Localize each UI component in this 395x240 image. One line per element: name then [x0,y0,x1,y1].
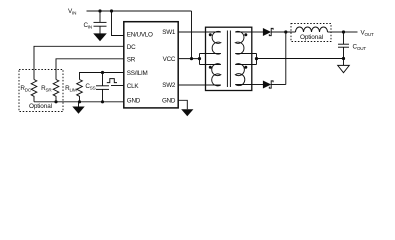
junction dot EN tap [110,9,113,12]
inductor L1 [291,27,344,32]
IC U1 box [124,22,178,108]
junction dot COUT bottom [342,57,345,60]
svg-text:RSR: RSR [41,85,52,93]
svg-text:CLK: CLK [127,83,140,90]
secondary winding bottom [235,64,256,86]
svg-text:SW1: SW1 [162,29,176,36]
wire D2 riser [285,32,287,85]
wire secondary bottom to D2 [252,84,264,86]
svg-text:RDC: RDC [20,85,31,93]
ground IC (filled) [181,109,193,116]
ground rail (filled) [72,102,84,114]
junction dot CSS bottom [101,100,104,103]
svg-text:VOUT: VOUT [361,30,374,38]
phase dot secondary top [244,33,247,36]
svg-text:COUT: COUT [353,44,367,52]
junction dot center tap right [255,57,258,60]
wire VCC to center tap [178,58,199,60]
secondary center bar [256,54,258,65]
junction dot RLIM bottom [78,100,81,103]
svg-text:Optional: Optional [300,34,323,41]
wire SW1 [178,31,221,33]
optional box left (dashed) [19,70,63,112]
primary winding bottom [200,64,221,86]
svg-text:EN/UVLO: EN/UVLO [127,32,153,39]
phase dot primary bottom [209,66,212,69]
svg-text:VCC: VCC [163,56,176,63]
capacitor CSS [96,73,109,102]
wire VIN drop [191,11,193,59]
wire to VOUT [344,31,358,33]
primary center bar [199,54,201,65]
ground VOUT (open) [338,59,350,73]
phase dot secondary bottom [244,66,247,69]
diode D2 (schottky) [263,81,273,89]
svg-text:CSS: CSS [85,83,95,91]
wire VIN top rail [87,10,192,12]
junction dot RSR bottom [54,100,57,103]
capacitor CIN [94,11,107,34]
wire SW2 [178,84,221,86]
wire DC to RDC [34,46,124,79]
svg-text:RLIM: RLIM [65,85,77,93]
resistor RDC [31,80,37,102]
wire SS/ILIM [80,73,124,80]
wire secondary return rail [257,58,344,60]
svg-text:GND: GND [162,98,176,105]
resistor RLIM [77,80,83,102]
svg-text:CIN: CIN [84,22,93,30]
diode D1 (schottky) [263,28,273,36]
wire GND rail [34,101,124,103]
svg-text:DC: DC [127,44,136,51]
junction dot D-join [284,30,287,33]
secondary winding top [235,31,256,54]
capacitor COUT [338,32,349,59]
junction dot VIN-VCC [190,57,193,60]
junction dot CIN tap [98,9,101,12]
svg-text:VIN: VIN [68,8,76,16]
primary winding top [200,31,221,54]
junction dot VOUT tap [342,30,345,33]
optional box right (dashed) [291,24,331,42]
junction dot center tap left [198,57,201,60]
wire SR to RSR [56,59,124,80]
wire secondary top to D1 [252,31,264,33]
transformer T1 box [206,27,252,90]
wire D1 to optional [271,31,291,33]
junction dot CSS tap [101,71,104,74]
svg-text:SW2: SW2 [162,82,176,89]
wire GND right step [178,100,187,109]
wire EN/UVLO feed [112,11,124,36]
svg-text:Optional: Optional [29,103,52,110]
resistor RSR [53,80,59,102]
svg-text:SS/ILIM: SS/ILIM [127,70,148,77]
wire CLK stub [111,85,124,87]
svg-text:GND: GND [127,98,141,105]
transformer core [227,31,230,88]
phase dot primary top [209,33,212,36]
ground CIN (filled) [93,33,107,41]
svg-text:SR: SR [127,57,136,64]
wire D2 to riser [271,84,286,86]
